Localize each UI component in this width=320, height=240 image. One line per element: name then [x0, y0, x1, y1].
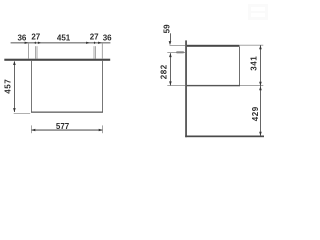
- arrowhead right-pointing at x=28.5: [25, 42, 29, 44]
- side view floor line: [185, 136, 264, 138]
- dimension 429 vertical: [259, 86, 262, 136]
- front view cabinet box: [31, 61, 103, 113]
- dimension 341 vertical: [259, 45, 262, 86]
- side view cabinet box (right edge and bottom): [187, 47, 240, 87]
- svg-text:577: 577: [56, 122, 70, 131]
- front view countertop slab: [4, 59, 110, 61]
- faint logo watermark top right: [248, 4, 268, 20]
- dimension 457 vertical line: [13, 61, 16, 112]
- extension line y=45.3 (countertop top): [170, 44, 186, 47]
- label 282 (rotated): [159, 64, 168, 79]
- extension line y=52.4 (bolt axis): [167, 51, 185, 54]
- wall hanger bolt (side view): [176, 52, 184, 54]
- hanger bolt pair right: [94, 46, 96, 59]
- dimension 59 (leader + down arrow): [169, 33, 172, 45]
- dimension 577: [31, 125, 103, 133]
- svg-text:27: 27: [90, 32, 99, 41]
- extension line right (x=101.9): [101, 43, 104, 59]
- label 27 left: [31, 32, 40, 41]
- label 36 left: [17, 33, 26, 42]
- label 457 (rotated): [3, 79, 12, 94]
- side view countertop: [187, 45, 240, 47]
- svg-text:36: 36: [17, 33, 26, 42]
- arrowhead right-pointing at x=41.2: [38, 42, 41, 44]
- extension line y=85.6 right (box bottom, to 341/429): [240, 84, 263, 87]
- 457 bottom extension line: [14, 112, 31, 115]
- label 36 right: [103, 33, 112, 42]
- label 59 (rotated): [163, 24, 172, 33]
- arrowhead right-pointing at x=89.8: [86, 42, 90, 44]
- extension line left (x=28.5): [27, 43, 30, 59]
- arrowhead right-pointing at x=101.8: [98, 42, 102, 44]
- svg-text:341: 341: [250, 56, 259, 71]
- svg-text:429: 429: [251, 106, 260, 121]
- arrow diamond at right bolt pair: [94, 42, 96, 45]
- side view wall line: [185, 40, 187, 137]
- arrow diamond at left bolt pair: [34, 42, 36, 45]
- top dimension chain line: [11, 42, 111, 43]
- label 577: [56, 122, 70, 131]
- svg-text:457: 457: [3, 79, 12, 94]
- svg-text:451: 451: [57, 33, 71, 42]
- svg-text:59: 59: [163, 24, 172, 33]
- svg-text:27: 27: [31, 32, 40, 41]
- label 341 (rotated): [250, 56, 259, 71]
- label 27 right: [90, 32, 99, 41]
- hanger bolt pair left: [35, 46, 37, 59]
- dimension 282 vertical: [169, 53, 172, 86]
- svg-text:282: 282: [159, 64, 168, 79]
- extension line y=85.6 left (box bottom): [167, 84, 185, 87]
- label 451: [57, 33, 71, 42]
- extension line y=44.9 right (top, to 341): [240, 44, 263, 47]
- label 429 (rotated): [251, 106, 260, 121]
- svg-text:36: 36: [103, 33, 112, 42]
